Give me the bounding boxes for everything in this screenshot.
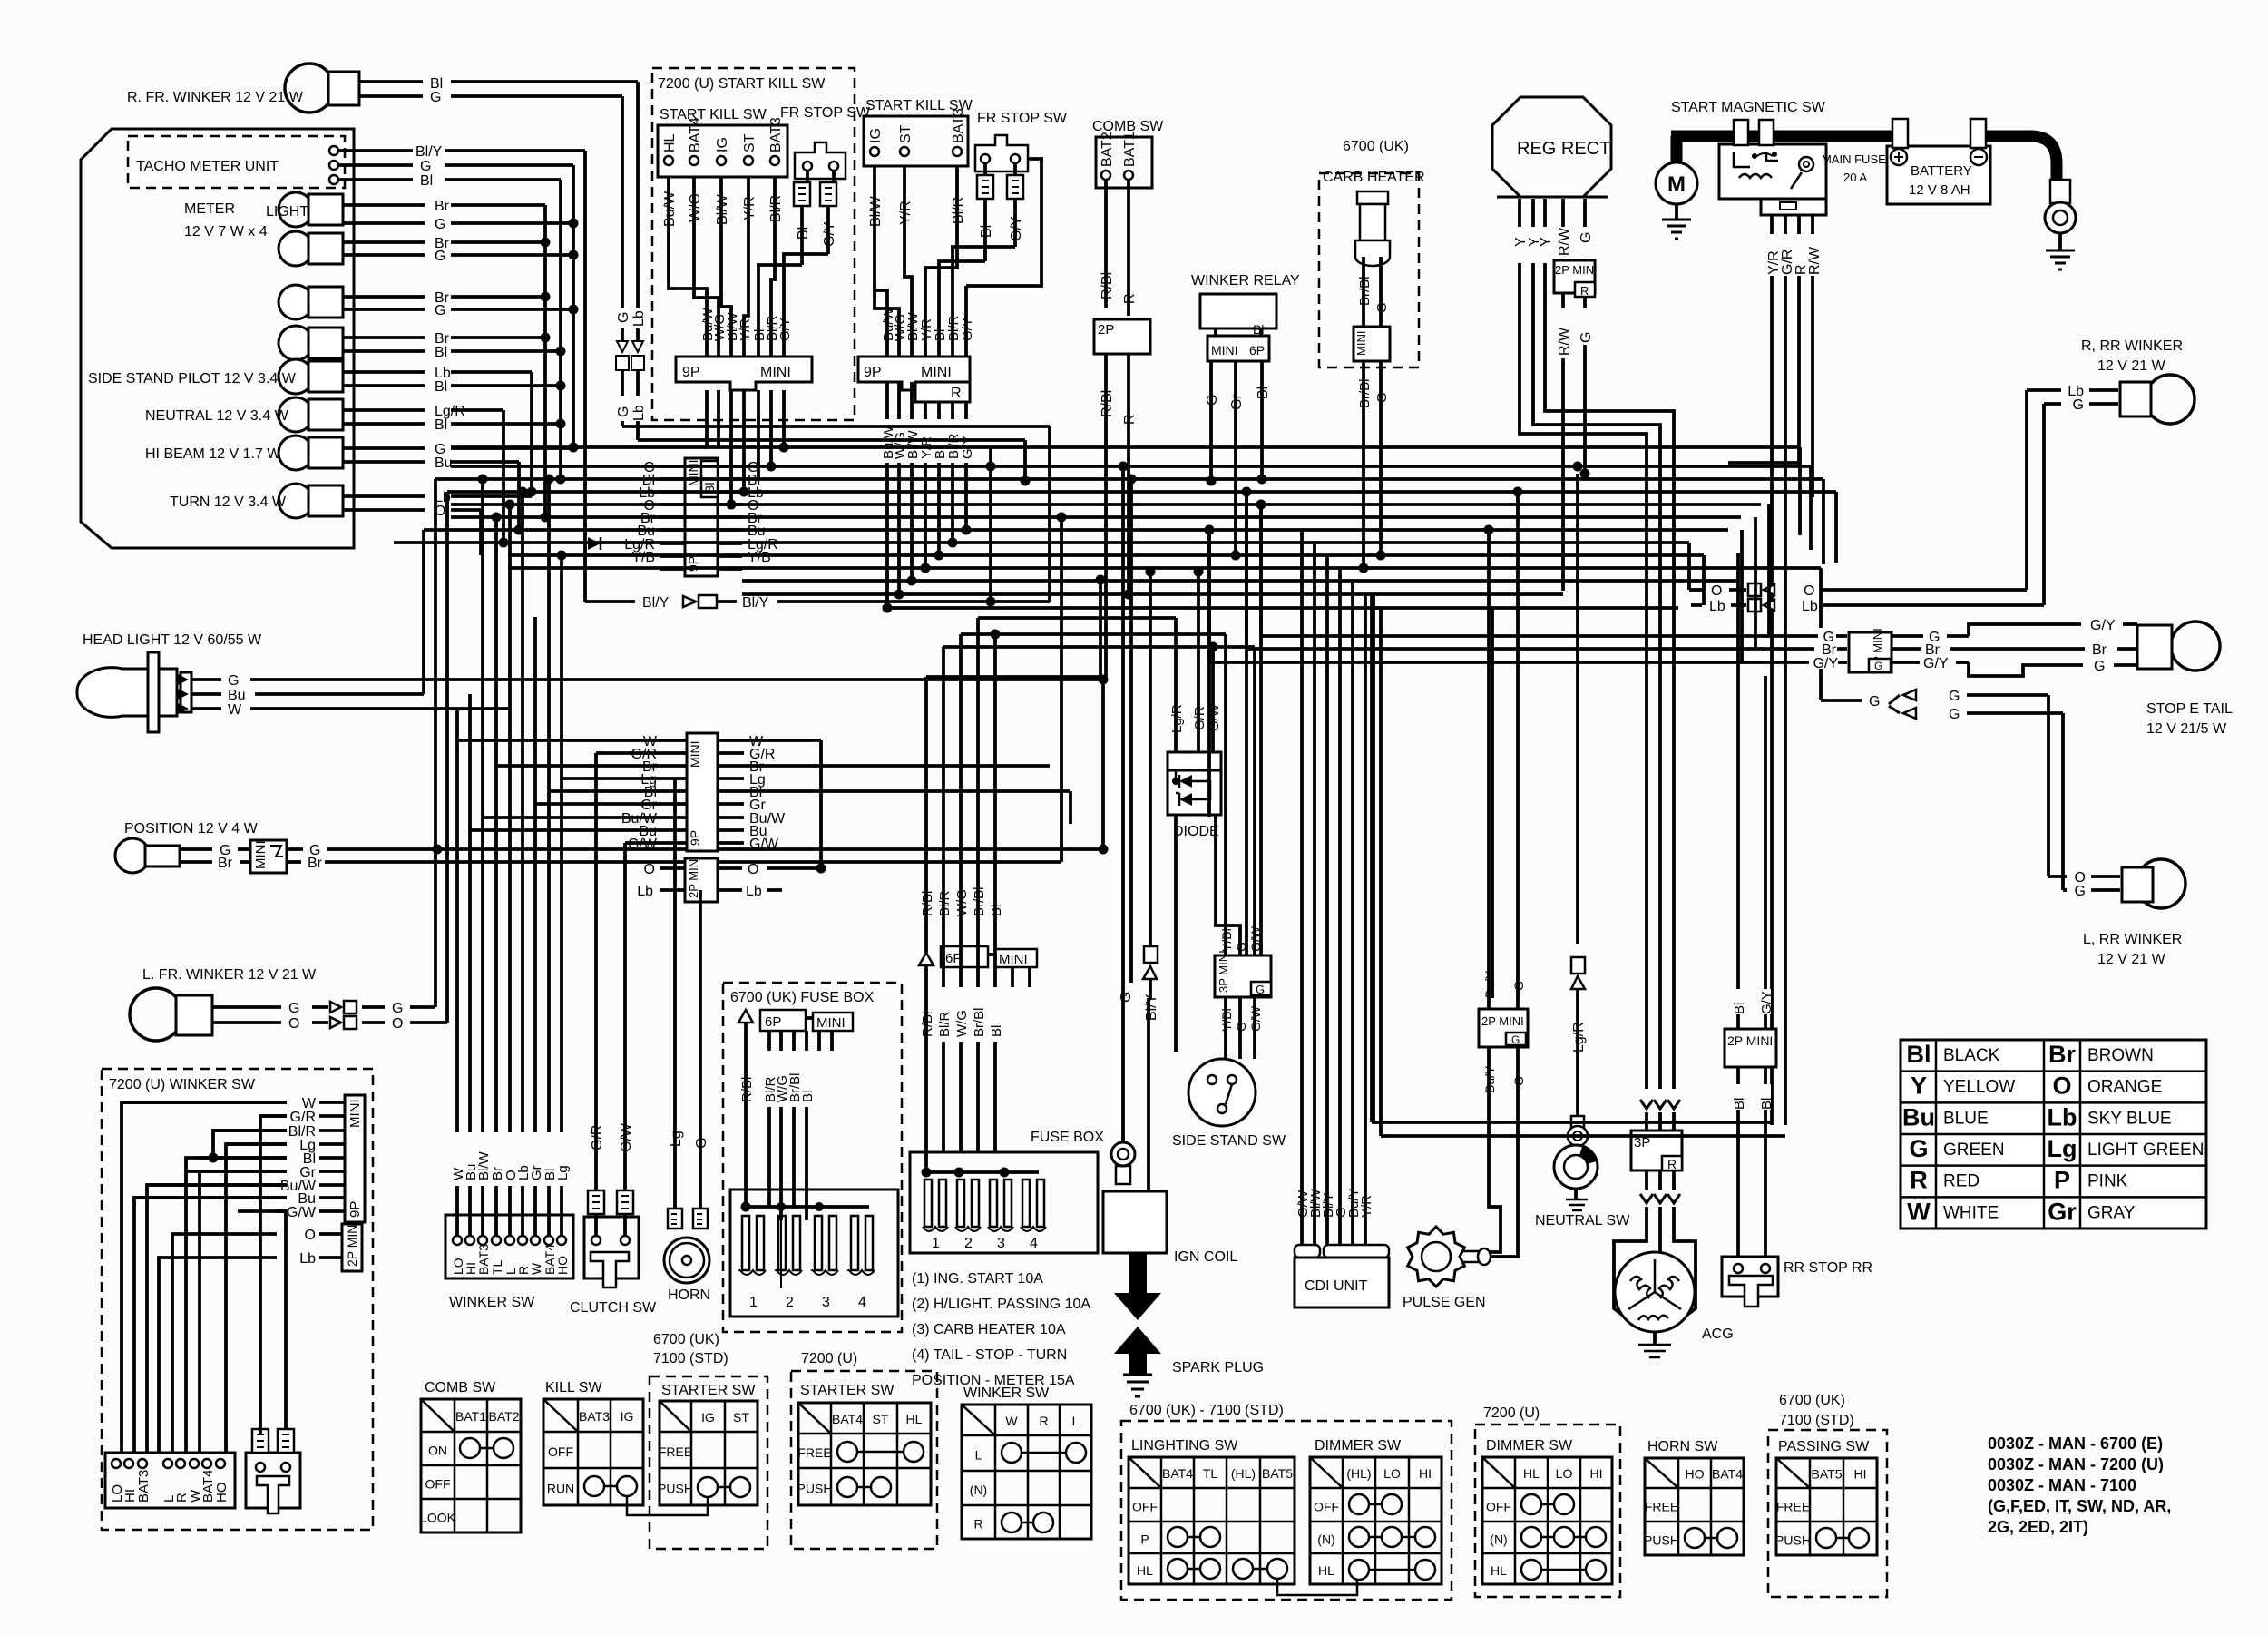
svg-text:HI BEAM 12 V 1.7 W: HI BEAM 12 V 1.7 W (145, 446, 281, 462)
svg-text:Bu: Bu (1902, 1103, 1935, 1131)
svg-text:7200 (U): 7200 (U) (1483, 1405, 1540, 1421)
svg-text:WHITE: WHITE (1943, 1203, 1999, 1222)
svg-text:W/G: W/G (954, 1010, 970, 1037)
svg-text:LOOK: LOOK (420, 1511, 456, 1525)
svg-text:6P: 6P (765, 1014, 781, 1030)
svg-text:Lb: Lb (299, 1251, 316, 1267)
svg-text:G: G (1374, 392, 1390, 403)
svg-text:3: 3 (822, 1295, 830, 1310)
svg-text:DIMMER SW: DIMMER SW (1486, 1438, 1573, 1454)
svg-text:SIDE STAND PILOT 12 V 3.4 W: SIDE STAND PILOT 12 V 3.4 W (88, 371, 297, 387)
svg-text:Bl/R: Bl/R (937, 1011, 953, 1037)
svg-text:DIODE: DIODE (1173, 824, 1219, 839)
svg-text:Bl: Bl (435, 417, 447, 433)
svg-text:MINI: MINI (686, 459, 700, 486)
svg-text:Lb: Lb (631, 405, 647, 421)
svg-text:2P MINI: 2P MINI (1555, 263, 1598, 277)
svg-text:Bu/Y: Bu/Y (1482, 1065, 1497, 1093)
svg-text:W: W (1907, 1198, 1931, 1225)
svg-text:Br/Bl: Br/Bl (1357, 378, 1373, 408)
svg-text:OFF: OFF (1132, 1500, 1158, 1514)
svg-text:HL: HL (1137, 1563, 1153, 1578)
svg-text:RR STOP RR: RR STOP RR (1784, 1260, 1872, 1276)
svg-text:IG: IG (621, 1409, 634, 1424)
svg-text:Br: Br (218, 856, 233, 871)
svg-text:2P: 2P (1098, 322, 1114, 338)
svg-text:ST: ST (873, 1412, 889, 1426)
svg-text:(G,F,ED, IT, SW, ND, AR,: (G,F,ED, IT, SW, ND, AR, (1988, 1497, 2171, 1515)
svg-text:FREE: FREE (659, 1444, 692, 1459)
svg-text:G/Y: G/Y (1923, 656, 1949, 671)
svg-text:HORN SW: HORN SW (1647, 1439, 1718, 1454)
svg-text:9P: 9P (682, 365, 700, 380)
svg-text:R: R (1910, 1167, 1928, 1194)
svg-text:ON: ON (428, 1444, 447, 1458)
svg-text:Bl: Bl (1907, 1041, 1931, 1068)
svg-text:REG RECT: REG RECT (1517, 139, 1610, 159)
svg-text:ACG: ACG (1702, 1327, 1734, 1342)
svg-text:FUSE BOX: FUSE BOX (1031, 1130, 1104, 1145)
svg-text:(1) ING. START 10A: (1) ING. START 10A (912, 1271, 1043, 1287)
svg-text:BAT3: BAT3 (579, 1409, 610, 1424)
svg-text:W: W (529, 1262, 543, 1275)
svg-text:COMB SW: COMB SW (425, 1380, 496, 1395)
svg-text:1: 1 (749, 1295, 758, 1310)
svg-text:CARB HEATER: CARB HEATER (1323, 170, 1425, 185)
svg-text:3: 3 (997, 1236, 1005, 1251)
svg-text:HO: HO (1686, 1467, 1705, 1482)
svg-text:4: 4 (1030, 1236, 1038, 1251)
svg-text:WINKER SW: WINKER SW (449, 1295, 535, 1310)
svg-text:G: G (2094, 659, 2105, 674)
svg-text:Lb: Lb (1709, 599, 1725, 614)
svg-text:O: O (1711, 583, 1722, 599)
svg-text:STARTER SW: STARTER SW (661, 1383, 756, 1398)
svg-text:DIMMER SW: DIMMER SW (1315, 1438, 1402, 1454)
svg-text:G: G (2075, 884, 2086, 899)
svg-text:R, RR WINKER: R, RR WINKER (2081, 338, 2183, 354)
svg-text:0030Z - MAN - 7100: 0030Z - MAN - 7100 (1988, 1476, 2136, 1494)
svg-text:R/W: R/W (1557, 327, 1572, 356)
svg-text:PUSH: PUSH (1644, 1533, 1679, 1548)
svg-text:WINKER RELAY: WINKER RELAY (1191, 273, 1300, 289)
svg-text:G/W: G/W (749, 837, 779, 852)
svg-text:(4) TAIL - STOP - TURN: (4) TAIL - STOP - TURN (912, 1347, 1067, 1363)
svg-text:BAT5: BAT5 (1262, 1466, 1293, 1481)
svg-text:CLUTCH SW: CLUTCH SW (570, 1300, 657, 1316)
svg-text:G: G (2073, 397, 2084, 413)
svg-text:2P MINI: 2P MINI (1727, 1033, 1773, 1048)
svg-text:7100 (STD): 7100 (STD) (653, 1351, 728, 1366)
svg-text:MINI: MINI (816, 1015, 846, 1031)
svg-text:HL: HL (1318, 1563, 1334, 1578)
svg-text:LIGHT GREEN: LIGHT GREEN (2087, 1141, 2204, 1160)
svg-text:HORN: HORN (668, 1287, 710, 1303)
svg-text:PUSH: PUSH (658, 1482, 693, 1496)
svg-text:O: O (748, 862, 758, 877)
svg-text:FR STOP SW: FR STOP SW (977, 111, 1068, 126)
svg-text:0030Z - MAN - 7200 (U): 0030Z - MAN - 7200 (U) (1988, 1455, 2164, 1473)
svg-text:G: G (420, 159, 431, 174)
svg-text:G: G (1119, 992, 1134, 1003)
svg-text:SKY BLUE: SKY BLUE (2087, 1109, 2172, 1128)
svg-text:MINI: MINI (347, 1099, 363, 1128)
svg-text:6700 (UK): 6700 (UK) (653, 1332, 719, 1347)
svg-text:Bl: Bl (1256, 387, 1271, 399)
svg-text:4: 4 (858, 1295, 866, 1310)
svg-text:2P MINI: 2P MINI (345, 1221, 359, 1267)
svg-text:FREE: FREE (797, 1445, 831, 1460)
svg-text:G: G (1874, 660, 1882, 672)
svg-text:HL: HL (1491, 1563, 1507, 1578)
svg-text:2: 2 (786, 1295, 794, 1310)
svg-text:CDI UNIT: CDI UNIT (1305, 1278, 1368, 1294)
svg-text:Lb: Lb (631, 310, 647, 327)
svg-text:Br/Bl: Br/Bl (1357, 276, 1373, 306)
svg-text:ST: ST (898, 124, 914, 143)
svg-text:R/W: R/W (1557, 227, 1572, 256)
svg-text:BAT1: BAT1 (1122, 132, 1138, 167)
svg-text:(N): (N) (970, 1483, 987, 1497)
svg-text:Bu: Bu (228, 688, 246, 703)
svg-text:(N): (N) (1317, 1532, 1334, 1547)
svg-text:2: 2 (964, 1236, 973, 1251)
svg-text:6700 (UK) FUSE BOX: 6700 (UK) FUSE BOX (730, 990, 875, 1005)
svg-text:(HL): (HL) (1346, 1466, 1371, 1481)
svg-text:BATTERY: BATTERY (1911, 163, 1972, 179)
svg-text:G: G (1949, 689, 1960, 704)
svg-text:Lg: Lg (2048, 1135, 2077, 1162)
svg-text:G: G (1909, 1135, 1928, 1162)
svg-text:G: G (1256, 983, 1265, 996)
svg-text:G/W: G/W (1248, 1005, 1263, 1032)
svg-text:IG: IG (701, 1410, 715, 1425)
svg-text:Bl: Bl (796, 227, 811, 240)
svg-text:R/Bl: R/Bl (1100, 390, 1115, 417)
svg-text:Br: Br (435, 199, 450, 214)
svg-text:MINI: MINI (760, 365, 791, 380)
svg-text:STOP E TAIL: STOP E TAIL (2146, 701, 2233, 717)
svg-text:TACHO METER UNIT: TACHO METER UNIT (136, 159, 279, 174)
svg-text:Gr: Gr (1229, 394, 1245, 410)
svg-text:R: R (1039, 1414, 1048, 1428)
svg-text:W: W (228, 702, 242, 718)
svg-text:7100 (STD): 7100 (STD) (1779, 1413, 1854, 1428)
svg-text:MINI: MINI (253, 840, 269, 869)
svg-text:R: R (973, 1517, 982, 1532)
svg-text:SPARK PLUG: SPARK PLUG (1172, 1360, 1264, 1376)
svg-text:BLACK: BLACK (1943, 1046, 2000, 1065)
svg-text:7200 (U) WINKER SW: 7200 (U) WINKER SW (109, 1077, 256, 1092)
svg-text:3P MINI: 3P MINI (1217, 950, 1230, 993)
svg-text:TL: TL (490, 1259, 504, 1275)
svg-text:7200 (U) START KILL SW: 7200 (U) START KILL SW (658, 76, 826, 92)
svg-text:6P: 6P (1249, 343, 1265, 357)
svg-text:2G, 2ED, 2IT): 2G, 2ED, 2IT) (1988, 1518, 2088, 1536)
svg-text:G: G (1234, 1022, 1248, 1032)
svg-text:Lb: Lb (746, 884, 762, 899)
svg-text:FREE: FREE (1776, 1500, 1810, 1514)
svg-text:G: G (1579, 332, 1594, 343)
svg-text:BAT2: BAT2 (1100, 132, 1115, 167)
svg-text:O: O (305, 1228, 316, 1243)
svg-text:O: O (392, 1016, 403, 1032)
svg-text:9P: 9P (688, 830, 702, 846)
svg-text:Bl: Bl (979, 225, 994, 238)
svg-text:0030Z - MAN - 6700 (E): 0030Z - MAN - 6700 (E) (1988, 1434, 2163, 1453)
svg-text:HEAD LIGHT 12 V 60/55 W: HEAD LIGHT 12 V 60/55 W (83, 632, 262, 648)
svg-text:G/R: G/R (1192, 706, 1207, 730)
svg-text:Y/B: Y/B (748, 550, 771, 565)
svg-text:Bl: Bl (1732, 1003, 1747, 1014)
svg-text:GREEN: GREEN (1943, 1141, 2005, 1160)
svg-text:2P MINI: 2P MINI (1481, 1014, 1524, 1028)
svg-text:R: R (1667, 1157, 1677, 1171)
svg-text:G/Y: G/Y (822, 221, 837, 247)
svg-text:G: G (1949, 707, 1960, 722)
svg-text:12 V 7 W x 4: 12 V 7 W x 4 (184, 224, 268, 240)
svg-text:BROWN: BROWN (2087, 1046, 2154, 1065)
svg-text:BAT1: BAT1 (455, 1409, 486, 1424)
svg-text:WINKER SW: WINKER SW (963, 1385, 1050, 1401)
svg-text:Gr: Gr (2048, 1198, 2077, 1225)
svg-text:FR STOP SW: FR STOP SW (780, 105, 871, 121)
svg-text:G: G (1869, 694, 1880, 710)
svg-text:L: L (975, 1448, 982, 1463)
svg-text:9P: 9P (347, 1201, 363, 1218)
svg-text:6700 (UK): 6700 (UK) (1343, 139, 1409, 154)
svg-text:W: W (1005, 1414, 1018, 1428)
svg-text:G/Y: G/Y (1813, 656, 1838, 671)
svg-text:G: G (430, 90, 441, 105)
svg-text:G: G (228, 673, 239, 689)
svg-text:OFF: OFF (425, 1477, 451, 1492)
svg-text:HL: HL (1523, 1466, 1540, 1481)
svg-text:L. FR. WINKER 12 V 21 W: L. FR. WINKER 12 V 21 W (142, 967, 317, 983)
svg-text:Br: Br (2048, 1041, 2076, 1068)
svg-text:Y: Y (1911, 1072, 1927, 1100)
svg-text:7200 (U): 7200 (U) (801, 1351, 857, 1366)
svg-text:(N): (N) (1490, 1532, 1507, 1547)
svg-text:Bl: Bl (420, 173, 433, 189)
svg-text:PULSE GEN: PULSE GEN (1403, 1295, 1486, 1310)
svg-text:G: G (1511, 1076, 1526, 1086)
svg-text:BAT4: BAT4 (832, 1412, 863, 1426)
svg-text:Bu/Y: Bu/Y (1482, 970, 1497, 998)
svg-text:HI: HI (1590, 1466, 1603, 1481)
svg-text:Bu: Bu (435, 455, 453, 471)
svg-text:BAT3: BAT3 (768, 117, 784, 152)
svg-text:Bl: Bl (1732, 1098, 1747, 1110)
svg-text:LO: LO (1383, 1466, 1401, 1481)
svg-text:12 V 21 W: 12 V 21 W (2097, 358, 2166, 374)
svg-text:IG: IG (715, 137, 730, 152)
svg-text:O: O (2052, 1072, 2071, 1100)
svg-text:R: R (1122, 414, 1138, 425)
svg-text:12 V 8 AH: 12 V 8 AH (1909, 182, 1970, 198)
svg-text:G/Y: G/Y (2090, 618, 2116, 633)
svg-text:RED: RED (1943, 1172, 1980, 1191)
svg-text:OFF: OFF (548, 1444, 573, 1459)
svg-text:6700 (UK) - 7100 (STD): 6700 (UK) - 7100 (STD) (1129, 1403, 1284, 1418)
svg-text:P: P (2054, 1167, 2070, 1194)
svg-text:LO: LO (1556, 1466, 1573, 1481)
svg-text:KILL SW: KILL SW (545, 1380, 602, 1395)
svg-text:NEUTRAL 12 V 3.4 W: NEUTRAL 12 V 3.4 W (145, 408, 289, 424)
svg-text:L, RR WINKER: L, RR WINKER (2083, 932, 2182, 947)
svg-text:PASSING SW: PASSING SW (1778, 1439, 1870, 1454)
svg-text:OFF: OFF (1314, 1500, 1339, 1514)
svg-text:PINK: PINK (2087, 1172, 2128, 1191)
svg-text:TL: TL (1203, 1466, 1218, 1481)
svg-text:G/Y: G/Y (1009, 216, 1024, 241)
svg-text:IG: IG (868, 128, 884, 143)
svg-text:ST: ST (742, 133, 758, 152)
svg-text:2P MINI: 2P MINI (687, 856, 700, 898)
svg-text:MINI: MINI (999, 952, 1028, 967)
svg-text:Bl/Y: Bl/Y (415, 144, 443, 160)
svg-text:G: G (616, 406, 631, 417)
svg-text:LINGHTING SW: LINGHTING SW (1131, 1438, 1238, 1454)
svg-text:HI: HI (1419, 1466, 1432, 1481)
svg-text:G/R: G/R (290, 1110, 316, 1125)
svg-text:HI: HI (1854, 1467, 1867, 1482)
svg-text:G: G (435, 217, 445, 232)
svg-text:12 V 21/5 W: 12 V 21/5 W (2146, 721, 2227, 737)
svg-text:M: M (1667, 172, 1686, 197)
svg-text:Br: Br (2092, 642, 2107, 658)
svg-text:Br/Bl: Br/Bl (972, 1007, 987, 1037)
svg-text:P: P (1140, 1532, 1149, 1547)
svg-text:Br: Br (308, 856, 323, 871)
svg-text:GRAY: GRAY (2087, 1203, 2136, 1222)
svg-text:9P: 9P (864, 365, 882, 380)
svg-text:BAT4: BAT4 (1162, 1466, 1193, 1481)
svg-text:G: G (1511, 981, 1526, 991)
svg-text:(3) CARB HEATER 10A: (3) CARB HEATER 10A (912, 1322, 1066, 1337)
svg-text:ORANGE: ORANGE (2087, 1078, 2162, 1097)
svg-text:G: G (435, 249, 445, 264)
svg-text:Bl: Bl (989, 1025, 1004, 1037)
svg-text:BAT4: BAT4 (1712, 1467, 1743, 1482)
svg-text:LIGHT: LIGHT (266, 204, 308, 220)
svg-text:O: O (288, 1016, 299, 1032)
svg-text:R: R (1122, 293, 1138, 304)
svg-text:G: G (288, 1001, 299, 1016)
svg-text:12 V 21 W: 12 V 21 W (2097, 952, 2166, 967)
svg-text:START MAGNETIC SW: START MAGNETIC SW (1671, 100, 1826, 115)
svg-text:BAT3: BAT3 (951, 108, 966, 143)
svg-text:BLUE: BLUE (1943, 1109, 1989, 1128)
svg-text:POSITION 12 V 4 W: POSITION 12 V 4 W (124, 821, 259, 837)
svg-text:6700 (UK): 6700 (UK) (1779, 1393, 1845, 1408)
svg-text:G: G (1511, 1033, 1520, 1046)
svg-text:Lb: Lb (637, 884, 653, 899)
svg-text:Bl: Bl (435, 379, 447, 395)
svg-text:Lb: Lb (2048, 1103, 2077, 1131)
svg-text:R/Bl: R/Bl (1100, 272, 1115, 299)
svg-text:MINI: MINI (1211, 343, 1238, 357)
svg-text:G: G (1579, 232, 1594, 243)
svg-text:Y: Y (1539, 237, 1554, 247)
svg-text:R: R (951, 386, 962, 401)
svg-text:HL: HL (662, 133, 678, 152)
svg-text:BAT5: BAT5 (1812, 1467, 1843, 1482)
svg-text:METER: METER (184, 201, 235, 217)
svg-text:BAT2: BAT2 (489, 1409, 520, 1424)
svg-text:Bl: Bl (1759, 1098, 1774, 1110)
svg-text:MAIN FUSE: MAIN FUSE (1822, 152, 1886, 166)
svg-text:IGN COIL: IGN COIL (1174, 1249, 1237, 1265)
svg-text:R/W: R/W (1807, 246, 1823, 275)
svg-text:O: O (1804, 583, 1814, 599)
svg-text:ST: ST (733, 1410, 749, 1425)
svg-text:1: 1 (932, 1236, 940, 1251)
svg-text:G/W: G/W (287, 1205, 317, 1220)
svg-text:MINI: MINI (921, 365, 952, 380)
svg-text:Lb: Lb (1802, 599, 1818, 614)
svg-text:O: O (644, 862, 655, 877)
svg-text:TURN 12 V 3.4 W: TURN 12 V 3.4 W (170, 494, 287, 510)
svg-text:BAT3: BAT3 (136, 1470, 152, 1503)
svg-text:Bl/Y: Bl/Y (1144, 994, 1159, 1021)
svg-text:R: R (1580, 284, 1589, 298)
svg-text:START KILL SW: START KILL SW (660, 107, 767, 122)
svg-text:G: G (435, 303, 445, 318)
svg-text:(2) H/LIGHT. PASSING 10A: (2) H/LIGHT. PASSING 10A (912, 1297, 1090, 1312)
svg-text:L: L (1072, 1414, 1080, 1428)
svg-text:Lg/R: Lg/R (1571, 1022, 1587, 1052)
svg-text:Lg/R: Lg/R (1169, 704, 1185, 733)
svg-text:BAT4: BAT4 (688, 117, 703, 152)
svg-text:G: G (392, 1001, 403, 1016)
svg-text:Bl: Bl (800, 1091, 816, 1102)
svg-text:G: G (1205, 395, 1220, 406)
svg-text:MINI: MINI (688, 740, 702, 768)
svg-text:Bl: Bl (435, 345, 447, 360)
svg-text:YELLOW: YELLOW (1943, 1078, 2015, 1097)
svg-text:G: G (1374, 302, 1390, 313)
svg-text:20 A: 20 A (1843, 171, 1867, 184)
svg-text:G: G (616, 312, 631, 323)
svg-text:PUSH: PUSH (797, 1482, 833, 1496)
svg-text:(HL): (HL) (1231, 1466, 1256, 1481)
svg-text:PUSH: PUSH (1775, 1533, 1811, 1548)
svg-text:BAT3: BAT3 (476, 1244, 491, 1275)
svg-text:Y/Bl: Y/Bl (1219, 1008, 1234, 1032)
svg-text:Y/B: Y/B (631, 550, 655, 565)
svg-text:MINI: MINI (1354, 331, 1368, 356)
svg-text:SIDE STAND SW: SIDE STAND SW (1172, 1133, 1286, 1149)
svg-text:NEUTRAL SW: NEUTRAL SW (1535, 1213, 1630, 1229)
svg-text:Bl/Y: Bl/Y (742, 595, 769, 611)
svg-text:HL: HL (906, 1412, 923, 1426)
svg-text:FREE: FREE (1645, 1500, 1678, 1514)
svg-text:R. FR. WINKER 12 V 21 W: R. FR. WINKER 12 V 21 W (127, 90, 304, 105)
svg-text:OFF: OFF (1486, 1500, 1511, 1514)
svg-text:HO: HO (555, 1256, 570, 1275)
svg-text:HO: HO (214, 1483, 230, 1503)
svg-text:STARTER SW: STARTER SW (800, 1383, 894, 1398)
svg-text:Bl/Y: Bl/Y (642, 595, 670, 611)
svg-text:Lg: Lg (555, 1165, 571, 1180)
svg-text:G/Y: G/Y (1759, 991, 1774, 1014)
svg-text:RUN: RUN (547, 1482, 574, 1496)
